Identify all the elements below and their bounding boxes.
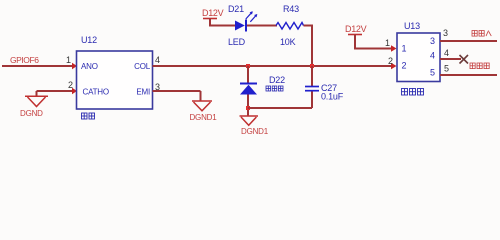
pin number 1 (U13 pin 1, outside) [385,38,390,48]
wire bottom bus C27 to D22 ground node [248,107,312,109]
svg-text:EMI: EMI [136,88,150,97]
op-amp U13 relay box [397,21,440,82]
svg-text:1: 1 [66,55,71,65]
pin number 5 (U13 pin 5, outside) [444,64,449,74]
power D12V (right) [345,24,367,35]
power D12V (top) [202,8,224,19]
svg-text:2: 2 [68,80,73,90]
value label 光耦 (optocoupler) under U12 [82,113,95,119]
svg-text:D12V: D12V [345,24,367,34]
svg-text:D21: D21 [228,4,244,14]
svg-text:5: 5 [430,68,435,78]
wire U12 EMI to DGND1 [153,91,201,101]
wire LED to R43 [247,25,277,27]
wire D12V to LED [210,19,235,26]
node label 电源出 (power out) [470,63,489,69]
svg-text:10K: 10K [280,37,296,47]
svg-text:COL: COL [134,62,151,71]
ground DGND1 (under EMI) [189,101,217,122]
diode D22 [240,75,285,95]
pin number 4 (U12 pin 4) [155,55,160,65]
wire U12 pin 2 (CATHO) to DGND [37,88,78,96]
wire D22 to ground [247,95,249,117]
svg-text:CATHO: CATHO [83,88,109,97]
svg-text:R43: R43 [283,4,299,14]
LED D21 [228,4,257,47]
pin number 2 (U12 pin 2) [68,80,73,90]
node junction at bottom bus [246,106,250,110]
node label 电源入 (power in) [472,31,491,37]
svg-text:U13: U13 [404,21,420,31]
value label 继电器 (relay) under U13 [402,89,424,96]
svg-text:3: 3 [443,28,448,38]
wire U13 pin 3 out [440,40,497,42]
svg-text:5: 5 [444,64,449,74]
wire bus to D22 [247,66,249,84]
node GPIOF6 net label [10,55,39,65]
svg-text:4: 4 [444,48,449,58]
svg-text:2: 2 [402,61,407,71]
svg-text:ANO: ANO [81,62,98,71]
svg-text:D22: D22 [269,75,285,85]
svg-text:U12: U12 [81,35,97,45]
svg-text:GPIOF6: GPIOF6 [10,55,39,65]
pin number 3 (U13 pin 3, outside) [443,28,448,38]
svg-text:4: 4 [430,51,435,61]
svg-text:2: 2 [388,56,393,66]
pin number 3 (U12 pin 3) [155,82,160,92]
svg-text:3: 3 [430,36,435,46]
svg-text:0.1uF: 0.1uF [321,92,344,102]
ground DGND1 (under D22) [240,116,269,136]
svg-text:4: 4 [155,55,160,65]
svg-text:1: 1 [402,44,407,54]
svg-text:DGND1: DGND1 [241,127,269,136]
svg-text:D12V: D12V [202,8,224,18]
pin number 2 (U13 pin 2, outside) [388,56,393,66]
pin number 4 (U13 pin 4, outside) [444,48,449,58]
wire R43 down to bus [304,26,313,67]
resistor R43 [276,4,304,47]
svg-text:1: 1 [385,38,390,48]
wire main bus: U12 COL to U13 pin 2 [153,63,397,69]
pin number 1 (U12 pin 1) [66,55,71,65]
wire U13 pin 4 stub [440,58,461,60]
node junction at D22 top [246,64,250,68]
no-connect X on pin 4 [460,55,469,64]
op-amp U12 optocoupler box [77,35,153,109]
svg-text:DGND1: DGND1 [189,113,217,122]
wire U13 pin 5 out [440,74,497,76]
svg-text:DGND: DGND [20,109,43,118]
node junction at C27 top [310,64,314,68]
value label 二极管 (diode) [266,86,283,91]
capacitor C27 [305,66,344,108]
svg-text:LED: LED [228,37,246,47]
wire D12V to U13 pin 1 [355,35,397,52]
wire GPIOF6 to U12 pin 1 [2,63,77,69]
ground DGND [20,96,48,118]
